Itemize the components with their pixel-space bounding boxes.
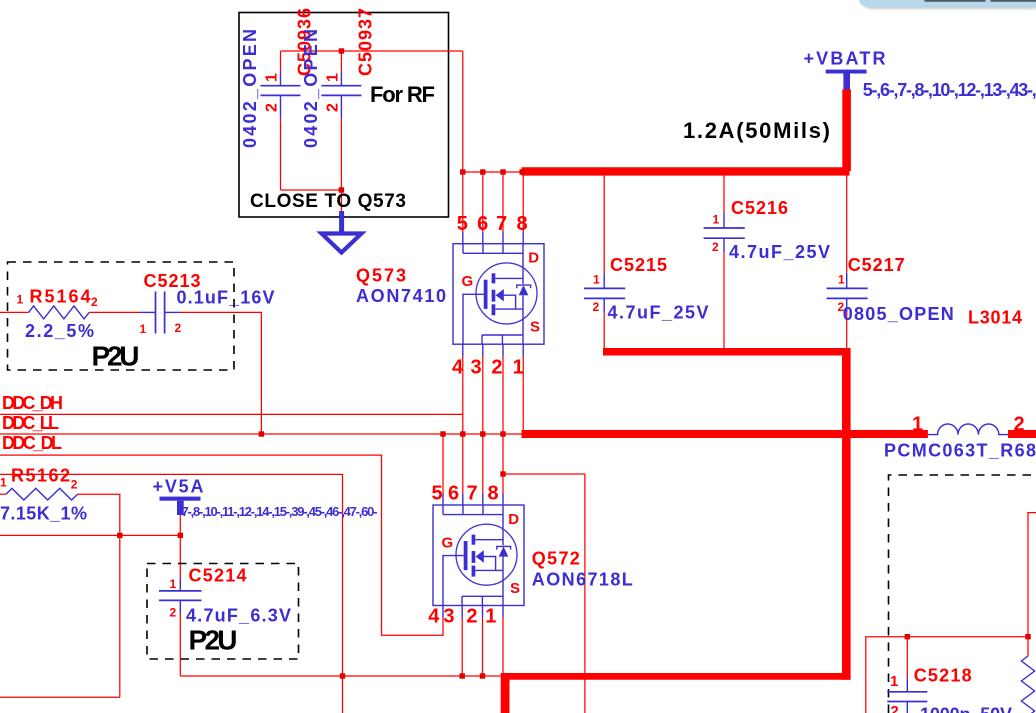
wire Q572 pin5 from DDC_LL (column x443) xyxy=(442,434,444,494)
svg-text:C50937: C50937 xyxy=(356,8,376,76)
svg-text:1: 1 xyxy=(912,414,923,436)
capacitor C5213 xyxy=(156,292,165,334)
wire right drop x585 xyxy=(584,474,586,713)
transistor Q572 AON6718L xyxy=(433,505,524,606)
wire C5214 down to rail xyxy=(179,600,181,613)
power symbol +VBATR xyxy=(804,49,886,90)
wire Q573 pin7 xyxy=(502,172,504,232)
wire +VBATR drop (thick) xyxy=(842,89,851,171)
wire C5215 top xyxy=(603,171,605,273)
junction Q573 pin5 rail xyxy=(460,169,465,174)
svg-text:7.15K_1%: 7.15K_1% xyxy=(0,504,87,524)
inductor pin2 stub (thick) xyxy=(1008,430,1036,438)
bus bottom rail (thick) xyxy=(503,673,850,680)
capacitor C50937 xyxy=(321,86,361,96)
svg-text:C5217: C5217 xyxy=(848,255,905,275)
wire Q573 pin8 xyxy=(522,172,524,232)
junction at C50937 bottom rail xyxy=(339,187,344,192)
capacitor C5216 xyxy=(704,228,745,238)
net DDC_LL thin xyxy=(0,433,522,435)
svg-text:8: 8 xyxy=(517,213,528,235)
svg-text:1: 1 xyxy=(713,213,720,227)
wire Q573 pin6 xyxy=(482,172,484,232)
svg-text:6: 6 xyxy=(477,213,488,235)
wire C5213 to DDC_LL xyxy=(165,311,180,313)
svg-text:PCMC063T_R68: PCMC063T_R68 xyxy=(884,441,1036,461)
wire C5216 bottom xyxy=(723,238,725,252)
junction bus left end xyxy=(520,169,525,174)
svg-text:R5162: R5162 xyxy=(11,466,70,486)
svg-text:1: 1 xyxy=(264,73,281,82)
net DDC_LL thick bus to inductor xyxy=(522,430,928,438)
power symbol +V5A xyxy=(153,477,204,516)
net DDC_DL xyxy=(0,455,443,635)
capacitor C5217 xyxy=(827,288,868,298)
wire C50936 bottom stub xyxy=(280,95,282,118)
net DDC_DH xyxy=(0,413,463,415)
svg-text:2: 2 xyxy=(71,478,78,492)
net R5162 upper xyxy=(0,474,343,713)
junction DDC_LL x503 xyxy=(500,431,505,436)
bus capacitor bottom rail (thick) xyxy=(603,348,850,356)
junction C5218 tap xyxy=(905,634,910,639)
svg-text:CLOSE TO Q573: CLOSE TO Q573 xyxy=(250,191,406,212)
svg-text:L3014: L3014 xyxy=(968,308,1022,328)
svg-text:Q573: Q573 xyxy=(356,266,406,286)
svg-text:1000p_50V: 1000p_50V xyxy=(920,705,1012,713)
junction Q572 pin8 tap xyxy=(500,471,505,476)
wire C5217 top xyxy=(846,175,848,273)
svg-text:2: 2 xyxy=(891,703,899,713)
svg-text:P2U: P2U xyxy=(189,625,238,656)
wire Q573 pin3 to Q572 pin7 (column x483) xyxy=(482,344,484,356)
capacitor C50936 xyxy=(261,86,301,96)
svg-text:C5214: C5214 xyxy=(189,566,247,586)
svg-text:2: 2 xyxy=(175,321,182,335)
svg-text:5: 5 xyxy=(457,213,468,235)
wire C50937 top stub xyxy=(340,51,342,72)
junction DDC_LL x483 xyxy=(480,431,485,436)
junction rail x119.8 xyxy=(117,533,122,538)
inductor L3014 PCMC063T coil xyxy=(928,424,1008,435)
svg-text:C5218: C5218 xyxy=(914,666,972,686)
svg-text:6: 6 xyxy=(448,483,459,505)
wire net top (C50936/C50937 top rail) xyxy=(281,50,463,52)
junction rail x180.3 xyxy=(178,533,183,538)
svg-text:8: 8 xyxy=(487,483,498,505)
wire C50937 box to Q573 (vertical) xyxy=(462,51,464,172)
junction Q573 pin7 rail xyxy=(500,169,505,174)
wire +V5A to C5214 xyxy=(179,515,181,578)
svg-text:4: 4 xyxy=(452,357,464,379)
svg-text:1: 1 xyxy=(838,273,845,287)
wire C5216 top xyxy=(723,171,725,213)
svg-text:7: 7 xyxy=(466,483,477,505)
wire C5218 bottom xyxy=(906,702,908,713)
svg-text:1: 1 xyxy=(513,357,524,379)
svg-text:+V5A: +V5A xyxy=(153,477,204,497)
bus right vertical (thick) xyxy=(842,348,851,680)
dashed box P2U lower xyxy=(147,564,299,660)
resistor R (bottom right, clipped) xyxy=(1021,656,1034,713)
svg-text:1: 1 xyxy=(140,322,147,336)
wire Q573 pin1 to VBAT_DDC bus xyxy=(522,344,524,356)
junction Q573 pin6 rail xyxy=(480,169,485,174)
svg-text:1: 1 xyxy=(325,73,342,82)
svg-text:2: 2 xyxy=(466,606,477,628)
svg-text:2: 2 xyxy=(91,295,98,309)
transistor Q573 AON7410 xyxy=(453,244,544,345)
browser toolbar fragment top-right xyxy=(859,0,1036,9)
resistor R5164 xyxy=(0,306,156,319)
wire thin rail to Q573 top pins xyxy=(463,171,522,173)
svg-text:2: 2 xyxy=(712,240,719,254)
junction rail x482.5 xyxy=(480,673,485,678)
junction resistor tap xyxy=(1025,634,1030,639)
wire C5215 bottom xyxy=(603,298,605,312)
svg-text:5: 5 xyxy=(431,483,442,505)
svg-text:DDC_DL: DDC_DL xyxy=(2,433,62,453)
svg-text:4.7uF_25V: 4.7uF_25V xyxy=(729,242,830,262)
capacitor C5214 xyxy=(159,591,202,601)
resistor R5162 xyxy=(0,488,120,535)
svg-text:0.1uF_16V: 0.1uF_16V xyxy=(177,288,275,308)
svg-text:1: 1 xyxy=(17,293,24,307)
wire C5218 top xyxy=(906,637,908,679)
junction at C50937 top xyxy=(339,48,344,53)
wire C50936 top stub xyxy=(280,51,282,72)
ground symbol xyxy=(322,211,362,253)
net V5A rail left xyxy=(0,534,180,536)
wire bottom rail to ground xyxy=(281,190,342,214)
svg-text:AON6718L: AON6718L xyxy=(532,570,633,590)
svg-text:For RF: For RF xyxy=(370,82,435,107)
svg-text:4.7uF_25V: 4.7uF_25V xyxy=(608,303,709,323)
svg-text:7-,8-,10-,11-,12-,14-,15-,39-,: 7-,8-,10-,11-,12-,14-,15-,39-,45-,46-,47… xyxy=(182,504,378,519)
wire Q572 pin2 down xyxy=(482,606,484,618)
wire resistor top xyxy=(1027,637,1029,656)
svg-text:C5215: C5215 xyxy=(610,255,667,275)
junction rail x462.2 xyxy=(460,673,465,678)
svg-text:0805_OPEN: 0805_OPEN xyxy=(843,304,954,324)
svg-text:7: 7 xyxy=(496,213,507,235)
svg-text:1: 1 xyxy=(890,673,898,690)
svg-text:2: 2 xyxy=(264,103,281,112)
svg-text:R5164: R5164 xyxy=(30,287,91,307)
capacitor C5215 xyxy=(584,288,625,298)
junction DDC_LL x443 xyxy=(440,431,445,436)
svg-text:C5216: C5216 xyxy=(731,198,788,218)
wire C50937 bottom stub xyxy=(340,95,342,118)
wire Q572 pin8 to right drop xyxy=(503,473,585,475)
svg-text:2: 2 xyxy=(170,606,177,620)
wire Q572 pin1 down to bus xyxy=(502,606,504,618)
wire C5217 bottom xyxy=(846,298,848,312)
net bottom right rail xyxy=(866,637,1028,713)
dashed box P2U upper xyxy=(8,262,235,370)
svg-text:P2U: P2U xyxy=(92,341,140,372)
note box CLOSE TO Q573 xyxy=(239,13,449,218)
junction rail x342.5 xyxy=(340,673,345,678)
wire Q573 pin2 to Q572 pin8 (column x503) xyxy=(502,344,504,356)
wire Q573 pin5 xyxy=(462,172,464,232)
svg-text:2: 2 xyxy=(491,357,502,379)
junction C5213/DDC_LL xyxy=(259,431,264,436)
wire Q573 pin4 to Q572 pin6 (column x463) xyxy=(462,344,464,356)
svg-text:DDC_DH: DDC_DH xyxy=(2,393,63,413)
net bottom rail to bus xyxy=(180,675,503,677)
wire Q572 pin3 down xyxy=(461,606,463,618)
svg-text:1: 1 xyxy=(170,577,177,591)
svg-text:4: 4 xyxy=(428,606,440,628)
svg-text:4.7uF_6.3V: 4.7uF_6.3V xyxy=(186,606,291,626)
wire main VBAT bus (thick) xyxy=(522,167,850,175)
svg-text:5-,6-,7-,8-,10-,12-,13-,43-,: 5-,6-,7-,8-,10-,12-,13-,43-, xyxy=(863,80,1036,100)
svg-text:DDC_LL: DDC_LL xyxy=(2,413,59,433)
svg-text:2: 2 xyxy=(593,300,600,314)
svg-text:Q572: Q572 xyxy=(532,549,580,569)
svg-text:3: 3 xyxy=(471,357,482,379)
dashed box bottom right xyxy=(889,475,1036,713)
bus bottom drop (thick) xyxy=(501,673,510,713)
svg-text:1.2A(50Mils): 1.2A(50Mils) xyxy=(683,118,830,143)
svg-text:1: 1 xyxy=(593,273,600,287)
capacitor C5218 xyxy=(887,692,927,702)
svg-text:1: 1 xyxy=(485,606,496,628)
svg-text:1: 1 xyxy=(0,476,7,490)
svg-text:3: 3 xyxy=(443,606,454,628)
svg-text:2: 2 xyxy=(325,103,342,112)
wire x119.8 drop to left exit xyxy=(0,535,120,697)
junction DDC_LL x463 xyxy=(460,431,465,436)
wire right entry at y512 xyxy=(1028,513,1036,637)
